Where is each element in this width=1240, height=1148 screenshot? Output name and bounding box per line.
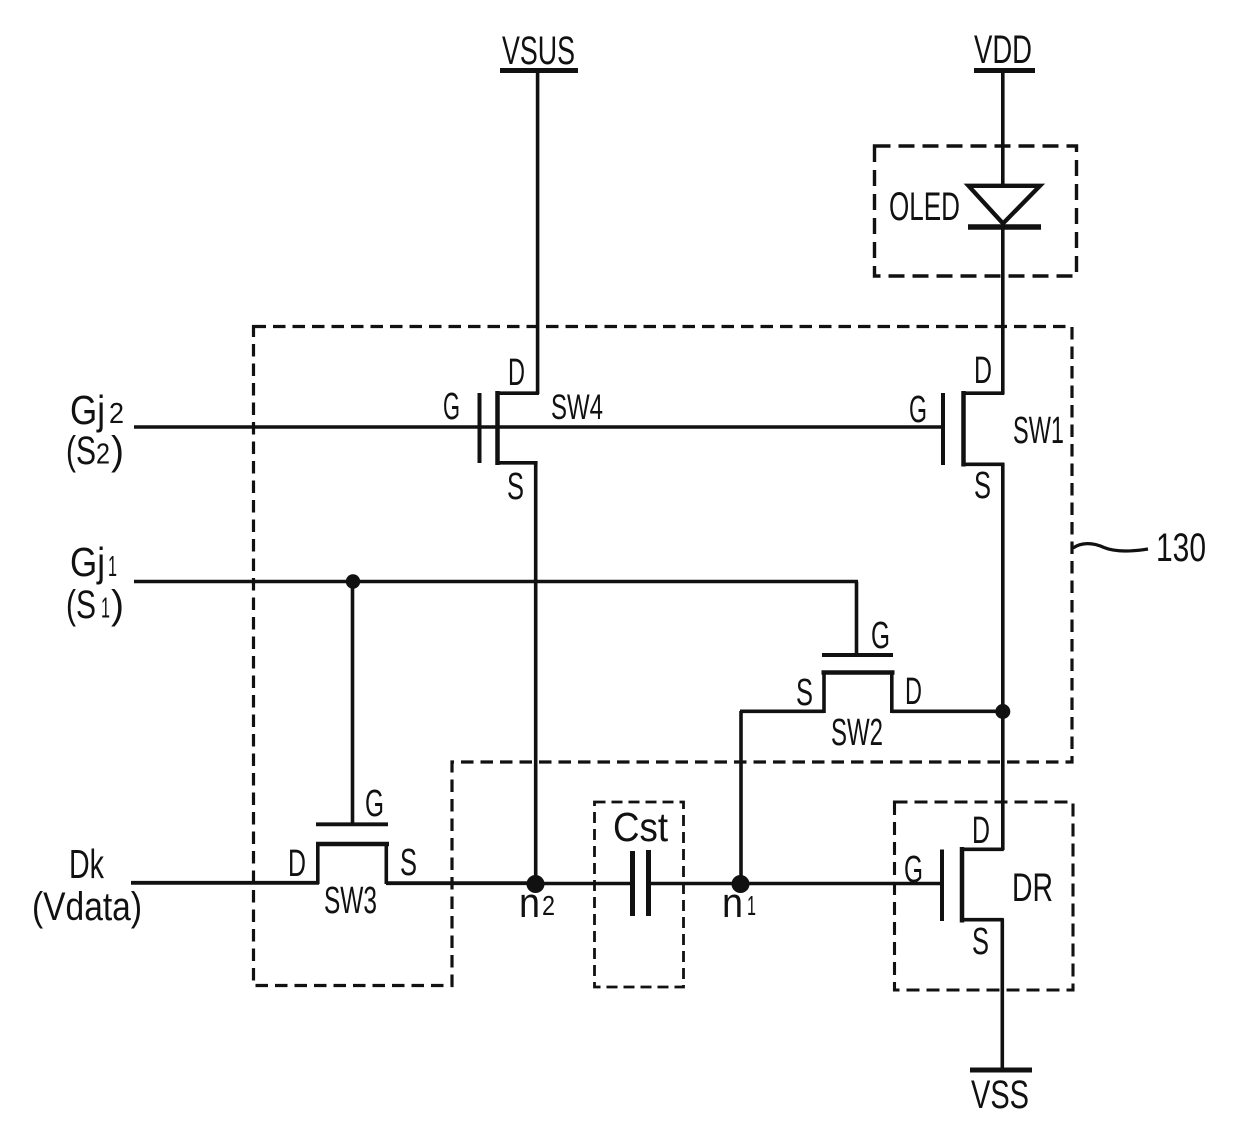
- svg-text:S: S: [507, 466, 524, 508]
- svg-text:Cst: Cst: [613, 804, 669, 850]
- net label Gj2 (S2): [66, 387, 124, 473]
- svg-text:n: n: [519, 879, 540, 926]
- wire VSUS to SW4 drain: [536, 70, 540, 394]
- capacitor Cst plates: [633, 850, 649, 916]
- OLED dashed box: [875, 146, 1077, 276]
- wire Dk data line to SW3 drain: [131, 881, 319, 885]
- svg-text:G: G: [443, 386, 460, 428]
- wire SW4 source to node n2: [534, 462, 538, 884]
- dashed box DR: [895, 802, 1074, 990]
- svg-text:(S: (S: [66, 583, 96, 627]
- svg-text:(Vdata): (Vdata): [32, 885, 142, 929]
- svg-text:Dk: Dk: [69, 841, 104, 887]
- svg-text:DR: DR: [1012, 866, 1053, 910]
- net label Gj1 (S1): [66, 539, 124, 627]
- svg-text:n: n: [722, 879, 743, 926]
- wire SW1 source to DR drain: [1001, 463, 1005, 850]
- svg-text:SW3: SW3: [324, 880, 377, 922]
- power rail VDD: [974, 28, 1035, 72]
- diode OLED: [968, 186, 1041, 227]
- svg-text:S: S: [974, 465, 991, 507]
- svg-text:VDD: VDD: [974, 28, 1032, 72]
- wire n2 to Cst left plate: [535, 882, 630, 886]
- svg-text:1: 1: [747, 890, 756, 921]
- wire Cst right plate to node n1: [651, 882, 741, 886]
- svg-text:): ): [111, 583, 124, 627]
- wire SW3 source to node n2: [386, 881, 537, 885]
- wire Gj1 scan line: [134, 580, 858, 584]
- wire junction to SW3 gate: [351, 582, 355, 825]
- svg-text:1: 1: [101, 593, 110, 625]
- power rail VSS: [970, 1070, 1032, 1117]
- svg-text:D: D: [972, 810, 990, 852]
- wire VDD to OLED anode: [1001, 70, 1005, 188]
- node n2: [527, 875, 545, 893]
- svg-text:SW2: SW2: [831, 712, 883, 754]
- wire SW2 source to node n1: [740, 711, 824, 884]
- leader squiggle to 130: [1073, 544, 1148, 551]
- wire SW2 drain to SW1 source line: [892, 709, 1004, 713]
- svg-text:G: G: [909, 389, 927, 431]
- transistor SW2: [822, 655, 895, 713]
- svg-text:D: D: [974, 350, 992, 392]
- wire n1 to DR gate: [740, 882, 941, 886]
- label n1: [722, 879, 756, 926]
- svg-text:2: 2: [96, 439, 110, 471]
- capacitor Cst dashed box: [595, 802, 684, 987]
- svg-text:): ): [111, 429, 124, 473]
- power rail VSUS: [500, 29, 578, 73]
- svg-text:SW4: SW4: [551, 388, 603, 427]
- transistor SW3: [316, 824, 389, 884]
- svg-text:SW1: SW1: [1013, 410, 1064, 452]
- wire DR source to VSS: [1000, 919, 1004, 1070]
- svg-text:S: S: [796, 672, 813, 714]
- svg-text:G: G: [365, 783, 384, 825]
- svg-text:Gj: Gj: [70, 539, 105, 585]
- svg-text:2: 2: [109, 398, 124, 430]
- svg-text:VSUS: VSUS: [502, 29, 575, 73]
- wire Gj2 scan line to SW1 gate: [134, 425, 941, 429]
- svg-text:2: 2: [542, 890, 555, 921]
- svg-text:OLED: OLED: [889, 185, 960, 229]
- svg-text:D: D: [508, 352, 525, 394]
- svg-text:130: 130: [1156, 526, 1206, 570]
- svg-text:VSS: VSS: [971, 1073, 1029, 1117]
- label n2: [519, 879, 555, 926]
- svg-text:1: 1: [108, 551, 117, 583]
- wire OLED cathode to SW1 drain: [1001, 226, 1005, 394]
- transistor SW1: [943, 391, 1004, 467]
- junction node SW2 drain / SW1 source: [995, 704, 1010, 719]
- svg-text:Gj: Gj: [70, 387, 105, 433]
- dashed boundary 130 (pixel circuit): [254, 327, 1073, 986]
- svg-text:G: G: [871, 615, 890, 657]
- node n1: [732, 875, 750, 893]
- svg-text:D: D: [905, 671, 922, 713]
- transistor DR: [942, 847, 1004, 923]
- net label Dk (Vdata): [32, 841, 142, 929]
- svg-text:S: S: [972, 921, 989, 963]
- svg-text:D: D: [288, 843, 306, 885]
- svg-text:S: S: [400, 842, 417, 884]
- wire Gj1 corner to SW2 gate: [855, 582, 859, 656]
- junction on Gj1 at SW3 gate: [346, 574, 360, 588]
- svg-text:(S: (S: [66, 429, 96, 473]
- transistor SW4: [480, 391, 539, 465]
